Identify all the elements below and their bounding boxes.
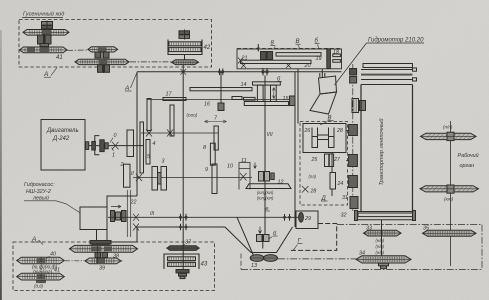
gear stack above track 38 (90, 241, 111, 248)
shaft line V (141, 132, 218, 134)
label b (funnel) (269, 231, 278, 239)
label Gusenichny hod (23, 11, 64, 18)
labels 0 1 (112, 133, 117, 159)
G region frame right of box29 (289, 224, 337, 251)
gear bar 18-19 top (276, 53, 321, 57)
rpm notes between tracks (32, 265, 58, 276)
leader to hydromotor (335, 43, 367, 85)
dashed frame around B group (300, 122, 348, 206)
auger bar 33 (364, 226, 402, 236)
gearbox right wall (294, 72, 296, 227)
rpm notes chain (376, 238, 385, 255)
coupling before box 29 (283, 214, 291, 221)
sliding block 3-5 (152, 167, 167, 191)
coupling on top shaft x265 (261, 68, 268, 76)
auger bar 35 (423, 226, 477, 237)
axle centreline to final drive 42 (130, 61, 171, 63)
engine flange (86, 142, 89, 150)
coupling x183 on bottom edge (179, 224, 187, 231)
final drive 42 housing (168, 40, 202, 55)
dashed enclosure A top (19, 20, 212, 68)
vertical track drive shaft (184, 55, 186, 60)
track drive shaft lower part (182, 245, 184, 269)
platform ring gear (246, 184, 291, 189)
node label D (321, 196, 328, 202)
engine shaft I (85, 145, 144, 147)
gear below clutch box (325, 154, 334, 167)
sprocket bar under 42 (172, 60, 199, 65)
node label B (hydro) (320, 116, 334, 126)
labels in distribution box (241, 49, 340, 69)
axle 40 to 39 (65, 260, 84, 262)
bevel under 38 (95, 253, 108, 258)
gear bar 4b (170, 105, 174, 136)
bevel axis to auger 34 (278, 258, 356, 260)
bearing marks left end of box (238, 58, 243, 64)
working organ spindle 2 (420, 185, 479, 193)
gear bar 4 upper (147, 99, 151, 131)
arrow into funnel (259, 227, 262, 234)
bevel gears under T3 (95, 52, 109, 60)
shaft II (133, 177, 252, 179)
dim arrow 7 (205, 116, 227, 124)
node label A (top) (43, 68, 57, 79)
gear bar 8 (210, 143, 215, 165)
coupling x183 on III (179, 214, 188, 221)
bevel gears under T4 (98, 65, 110, 74)
hydromotor shaft stub (320, 69, 325, 78)
label 11 with arrow (241, 158, 256, 169)
pump body (80, 207, 107, 230)
vertical pump to track drive (96, 230, 98, 246)
claw clutch left (312, 128, 318, 148)
labels 26 28 (304, 128, 343, 163)
track 41 bottom (17, 268, 65, 281)
engine block (41, 120, 85, 171)
shaft III drop to bevel (237, 217, 254, 255)
labels 5 3 (147, 154, 165, 165)
label Gidronasos (24, 182, 55, 202)
shaft line IV (147, 99, 295, 101)
conveyor body (361, 85, 413, 212)
bearing on shaft I (112, 142, 119, 150)
claw clutch on vertical shaft (244, 82, 288, 106)
gear on sprocket shaft (42, 21, 53, 30)
axle between 40 41 (40, 258, 42, 284)
central vertical shaft (264, 76, 266, 235)
funnel wall (225, 227, 293, 253)
shaft III (108, 216, 299, 218)
vertical shaft to clutch box (297, 69, 299, 124)
axle 38-39 (97, 245, 99, 264)
dimension arrow in claw (272, 88, 275, 99)
gear 29 oval (299, 213, 304, 223)
coupling on top shaft x221 (218, 69, 224, 76)
gear bar 17 (163, 92, 186, 101)
small gear bars right end (333, 54, 341, 57)
gear 6 in funnel (257, 234, 270, 249)
dashed enclosure A bottom (13, 242, 215, 291)
rpm yul (257, 190, 274, 201)
claw clutch right (329, 128, 335, 148)
axle centreline (67, 49, 90, 51)
conveyor bottom drum (355, 211, 416, 221)
distribution box (top middle) (237, 49, 342, 69)
bevel block above platform (259, 172, 275, 182)
gear cluster y130 (349, 125, 358, 136)
coupling 28 lower (302, 186, 316, 195)
final drive 43 housing (164, 254, 208, 269)
bracket gear 12r (239, 163, 250, 190)
sprocket bar 37 (166, 240, 200, 251)
vertical slot in housing (127, 190, 130, 237)
conveyor top drum (363, 64, 413, 68)
track T3 (88, 47, 118, 52)
gear cluster y160 (349, 155, 358, 167)
gearbox output box 29 (296, 211, 318, 229)
gear 1 on shaft I (127, 130, 134, 157)
left scan edge (0, 0, 1, 1)
track 40 (17, 252, 65, 264)
connector stubs to conveyor shaft (346, 130, 349, 132)
bevel column right of box (327, 49, 331, 69)
track 39 (85, 258, 123, 272)
track T1 (23, 30, 69, 36)
track 38 (69, 245, 138, 259)
track T4 (75, 59, 130, 64)
vertical link conveyor to augers (381, 220, 383, 264)
gear bar mid (214, 126, 218, 150)
bevel discs under funnel (250, 255, 278, 262)
wall slot plate (140, 122, 144, 173)
gear pack on conveyor shaft (352, 99, 366, 113)
gear 15 on shaft x221 (220, 72, 222, 103)
working organ axis (450, 121, 452, 266)
gear bar 16-14 (190, 88, 252, 91)
damper bracket (95, 136, 100, 155)
node labels above box (271, 39, 319, 47)
gear bar 4 lower (146, 140, 150, 165)
vertical shaft through B group (331, 153, 333, 173)
clutch middle web (318, 135, 329, 140)
bevel cluster in box (257, 44, 273, 60)
damper discs (92, 140, 108, 152)
bearing on shaft II right (240, 173, 247, 181)
node label G (293, 239, 303, 251)
node label A (bottom) (31, 236, 43, 245)
clutch box B (303, 124, 346, 153)
conveyor belt head lines (361, 68, 417, 85)
conveyor drive shaft (352, 64, 354, 211)
bearings left end of III (133, 214, 139, 231)
transfer line to working organ frame (337, 224, 482, 226)
labels 8 9 10 (203, 145, 233, 173)
hydromotor symbol (bent plate) (310, 76, 337, 114)
bearing marks in distribution box (241, 63, 291, 68)
bearings on shaft V (146, 130, 173, 137)
pickup under 34 (379, 263, 389, 268)
bevel gear pair under T1 (38, 34, 52, 47)
gear cluster y180 (349, 176, 358, 188)
small bars under 14 (232, 97, 242, 100)
main shaft line along gearbox top (137, 71, 342, 73)
leader to pump (56, 201, 80, 213)
auger bar 34 (356, 251, 411, 264)
caption Rabochiy organ (458, 152, 479, 169)
label Gidromotor 210.20 (368, 38, 424, 44)
gear bar 9 (212, 164, 217, 194)
working organ spindle 1 (421, 132, 477, 140)
pump coupling cluster (111, 205, 127, 222)
gear 24 (330, 173, 343, 190)
bearing pair top of conveyor shaft (350, 69, 357, 84)
bearing shaft II left (136, 174, 142, 181)
gearbox bottom edge (137, 226, 225, 228)
gear 2 on shaft II (124, 164, 131, 187)
gear under track 41 (34, 281, 46, 289)
gear at end of shaft IV (290, 96, 296, 106)
coupling to bottom drum (350, 197, 358, 209)
gear below 43 (176, 270, 189, 279)
gearbox left wall (136, 72, 138, 196)
pump drive housing (107, 196, 137, 242)
gear bar 20-21 bottom (241, 60, 312, 63)
node label A (at gearbox corner) (124, 74, 137, 93)
label b (claw) (277, 77, 282, 83)
track T2 with label 41 (20, 47, 68, 61)
gear above 42 (179, 30, 190, 40)
bearing at shaft crossing (181, 69, 187, 75)
